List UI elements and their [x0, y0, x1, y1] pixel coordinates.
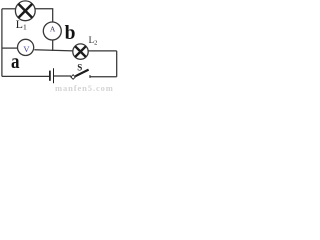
wire ammeter to middle rail: [52, 40, 54, 51]
label L2: [89, 35, 98, 46]
voltmeter V: [18, 39, 34, 55]
wire middle rail left: [2, 47, 17, 49]
svg-text:A: A: [50, 24, 56, 33]
switch S: [71, 70, 90, 80]
wire right vertical: [116, 51, 118, 77]
ammeter A: [43, 22, 61, 40]
wire middle rail right: [88, 50, 117, 52]
lamp L2: [73, 44, 88, 59]
node a: [11, 49, 20, 73]
wire bottom rail right: [91, 76, 117, 78]
wire left vertical: [1, 9, 3, 77]
label L1: [16, 17, 27, 32]
watermark manfen5.com: [55, 83, 114, 93]
svg-text:V: V: [23, 44, 30, 54]
node b: [65, 23, 76, 44]
lamp L1: [15, 1, 35, 21]
wire top rail left: [2, 8, 16, 10]
wire top rail right with corner down to ammeter: [35, 9, 53, 22]
wire bottom rail left: [2, 75, 49, 77]
label S: [77, 63, 82, 73]
svg-text:a: a: [11, 49, 20, 73]
battery: [50, 68, 54, 83]
svg-text:b: b: [65, 23, 76, 44]
svg-text:S: S: [77, 63, 82, 73]
svg-text:manfen5.com: manfen5.com: [55, 83, 114, 92]
wire middle rail center: [34, 50, 72, 51]
wire battery to switch: [54, 75, 71, 77]
